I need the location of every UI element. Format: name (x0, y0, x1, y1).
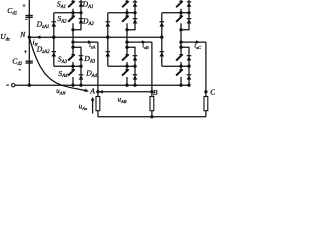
wire: phase A output drop to node A (97, 42, 99, 92)
wire: phase B clamp-diode branch (107, 13, 109, 66)
wire: phase B lower junction row (108, 65, 135, 67)
node A (96, 90, 99, 93)
junction: phase C clamp branch to neutral junction (160, 36, 163, 39)
transistor SC3 (176, 55, 182, 61)
resistor load of phase A (96, 97, 100, 111)
node B (150, 90, 153, 93)
wire: phase C lower junction row (162, 65, 189, 67)
junction: phase C diode rail to DC- bus junction (187, 84, 190, 87)
junction: phase A switch rail to DC- bus junction (71, 84, 74, 87)
transistor SC4 (176, 70, 182, 76)
transistor SA3 (68, 55, 74, 61)
svg-text:C: C (210, 87, 215, 96)
transistor SA2 (68, 16, 74, 22)
negative DC terminal (12, 84, 15, 87)
clamp diode DzB1 (106, 21, 111, 23)
wire: phase A diode-column rail (upper) and elbow to output (73, 0, 81, 30)
junction: phase B lower clamp junction on diode rail (133, 65, 136, 68)
wire: phase B upper junction row (108, 12, 135, 14)
wire: phase C output line with current arrow (181, 41, 206, 43)
junction: phase A upper clamp junction on diode rail (79, 11, 82, 14)
junction: phase A lower clamp junction on switch rail (71, 65, 74, 68)
wire: DC-link capacitor rail (28, 0, 30, 85)
transistor SC2 (176, 16, 182, 22)
transistor SB3 (122, 55, 128, 61)
diode DA3 (79, 55, 84, 57)
diode DA2 (79, 18, 84, 20)
transistor SA4 (68, 70, 74, 76)
clamp diode DzC1 (160, 21, 165, 23)
current arrow iN (36, 35, 40, 39)
resistor load of phase B (150, 97, 154, 111)
junction: phase C output lower junction (179, 46, 182, 49)
junction: phase B output lower junction (125, 46, 128, 49)
junction: phase A lower clamp junction on diode rail (79, 65, 82, 68)
voltage arrow uAo beside phase A resistor (92, 98, 94, 114)
wire: phase B output elbow to diode-column rail (lower) (127, 47, 135, 85)
junction: phase C lower clamp junction on diode rail (187, 65, 190, 68)
wire: neutral line from N to phase C clamp (29, 36, 162, 38)
junction: phase C upper clamp junction on switch rail (179, 11, 182, 14)
wire: phase C switch-column rail (180, 0, 182, 85)
diode DA1 (79, 1, 84, 3)
wire: phase B switch-column rail (126, 0, 128, 85)
svg-text:A: A (89, 86, 95, 95)
junction: phase B clamp branch to neutral junction (106, 36, 109, 39)
diode DC3 (187, 55, 192, 57)
junction: phase B output upper junction (125, 28, 128, 31)
wire: phase B output drop to node B (151, 42, 153, 92)
wire: phase A lower junction row (54, 65, 81, 67)
transistor SA1 (68, 1, 74, 7)
diode DB1 (133, 1, 138, 3)
wire: phase B diode-column rail (upper) and elbow to output (127, 0, 135, 30)
junction: phase A output current tap junction (71, 40, 74, 43)
wire: phase C output elbow to diode-column rail (lower) (181, 47, 189, 85)
clamp diode DzA1 (52, 21, 57, 23)
minus sign of Udc terminal (6, 84, 9, 86)
clamp diode DzB2 (106, 51, 111, 53)
wire: resistor leads phase C (205, 92, 207, 97)
capacitor Cd2 (26, 60, 33, 62)
voltage arc uAN from N to node A (30, 38, 89, 92)
junction: phase A output upper junction (71, 28, 74, 31)
capacitor Cd1 (26, 15, 33, 17)
wire: bottom DC bus (15, 84, 189, 86)
transistor SB4 (122, 70, 128, 76)
diode DA4 (79, 74, 84, 76)
wire: phase C diode-column rail (upper) and elbow to output (181, 0, 189, 30)
wire: phase C clamp-diode branch (161, 13, 163, 66)
wire: phase A upper junction row (54, 12, 81, 14)
diode DB2 (133, 18, 138, 20)
junction: phase C switch rail to DC- bus junction (179, 84, 182, 87)
minus sign of Cd2 (19, 69, 21, 71)
node N (28, 36, 31, 39)
wire: phase A output line with current arrow (73, 41, 98, 43)
transistor SB2 (122, 16, 128, 22)
wire: phase C output drop to node C (205, 42, 207, 92)
junction: capacitor rail to bottom bus (28, 84, 31, 87)
minus sign of Cd1 (25, 18, 27, 20)
junction: phase A clamp branch to neutral junction (52, 36, 55, 39)
junction: phase A output lower junction (71, 46, 74, 49)
junction: phase A upper clamp junction on switch rail (71, 11, 74, 14)
clamp diode DzA2 (52, 51, 57, 53)
svg-text:+: + (24, 49, 28, 56)
wire: resistor leads phase B (151, 92, 153, 97)
transistor SC1 (176, 1, 182, 7)
diode DB4 (133, 74, 138, 76)
diode DC2 (187, 18, 192, 20)
junction: phase B upper clamp junction on switch rail (125, 11, 128, 14)
junction: phase B output current tap junction (125, 40, 128, 43)
junction: phase B lower clamp junction on switch rail (125, 65, 128, 68)
junction: phase C lower clamp junction on switch rail (179, 65, 182, 68)
wire: phase A switch-column rail (72, 0, 74, 85)
junction: phase A diode rail to DC- bus junction (79, 84, 82, 87)
junction: phase B switch rail to DC- bus junction (125, 84, 128, 87)
diode DC4 (187, 74, 192, 76)
svg-text:B: B (153, 88, 158, 97)
wire: phase A output elbow to diode-column rail (lower) (73, 47, 81, 85)
resistor load of phase C (204, 97, 208, 111)
wire: phase A clamp-diode branch (53, 13, 55, 66)
diode DC1 (187, 1, 192, 3)
junction: phase C output upper junction (179, 28, 182, 31)
wire: phase C upper junction row (162, 12, 189, 14)
clamp diode DzC2 (160, 51, 165, 53)
wire: line from node A to node B with voltage arrow uAB (98, 91, 152, 93)
svg-text:+: + (22, 3, 26, 10)
transistor SB1 (122, 1, 128, 7)
wire: resistor leads phase A (97, 92, 99, 97)
node C (204, 90, 207, 93)
junction: phase C output current tap junction (179, 40, 182, 43)
junction: phase B upper clamp junction on diode rail (133, 11, 136, 14)
junction: phase B diode rail to DC- bus junction (133, 84, 136, 87)
svg-text:N: N (19, 30, 26, 39)
junction: phase C upper clamp junction on diode rail (187, 11, 190, 14)
wire: load star bottom rail (98, 116, 206, 118)
junction: phase B load to bottom rail (150, 115, 153, 118)
diode DB3 (133, 55, 138, 57)
wire: phase B output line with current arrow (127, 41, 152, 43)
